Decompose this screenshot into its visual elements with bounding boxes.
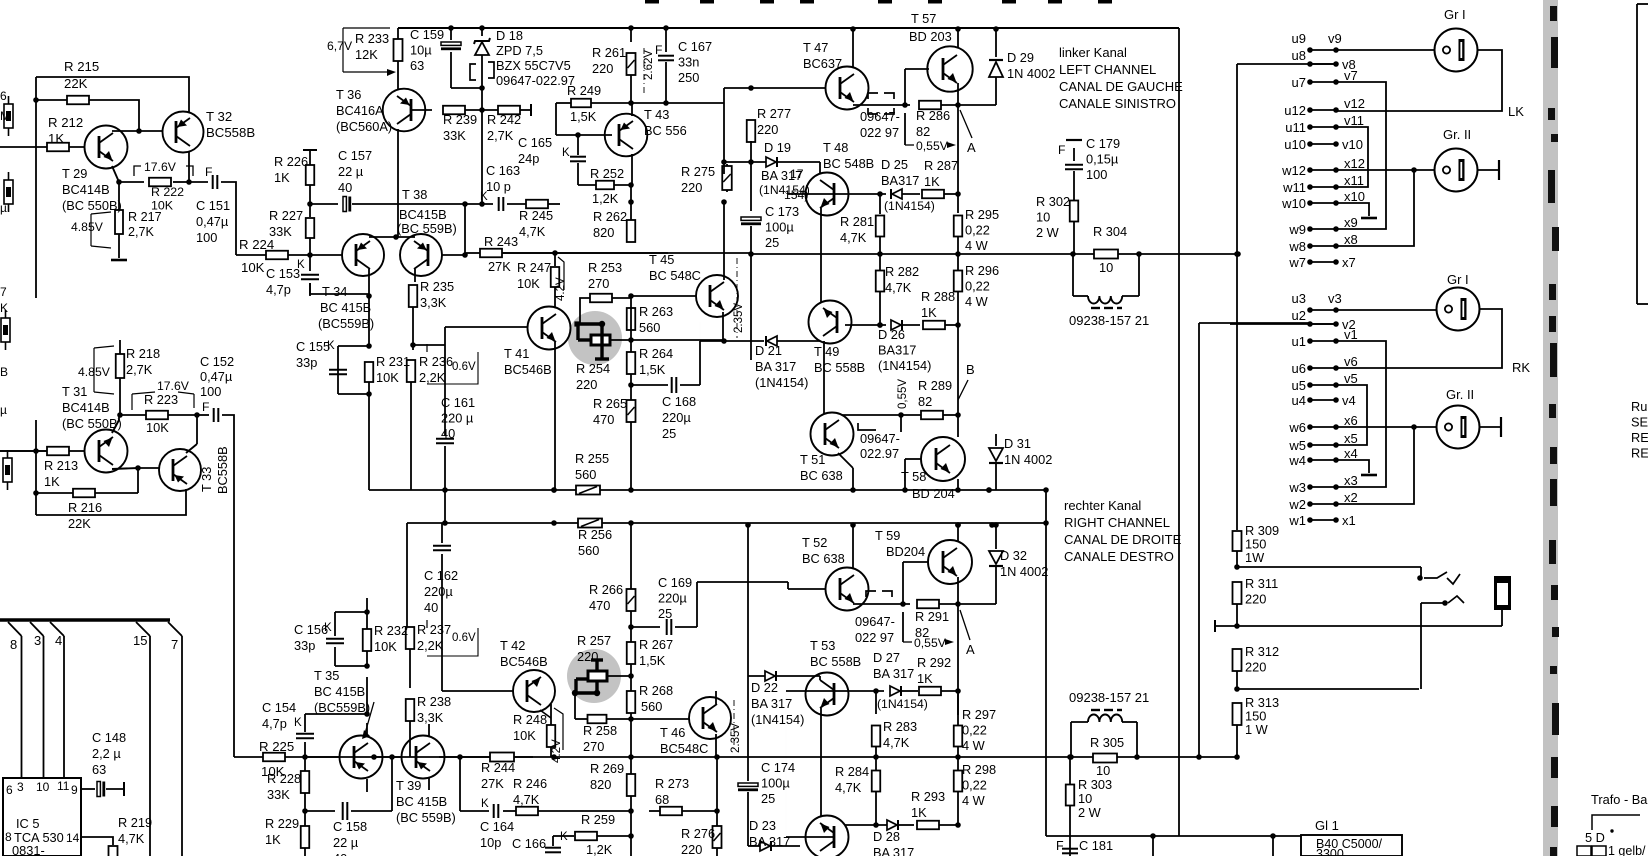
svg-text:R 282: R 282 — [885, 264, 919, 279]
svg-text:R 263: R 263 — [639, 304, 673, 319]
svg-text:Gr. II: Gr. II — [1443, 127, 1471, 142]
svg-text:D 19: D 19 — [764, 140, 791, 155]
svg-text:270: 270 — [583, 739, 604, 754]
svg-text:R 254: R 254 — [576, 361, 610, 376]
svg-text:220µ: 220µ — [662, 410, 691, 425]
svg-text:10K: 10K — [146, 420, 169, 435]
svg-text:R 238: R 238 — [417, 694, 451, 709]
svg-text:820: 820 — [593, 225, 614, 240]
svg-text:63: 63 — [92, 762, 106, 777]
svg-text:6,7V: 6,7V — [327, 39, 353, 53]
svg-text:R 293: R 293 — [911, 789, 945, 804]
svg-text:LEFT CHANNEL: LEFT CHANNEL — [1059, 62, 1156, 77]
svg-text:BA 317: BA 317 — [755, 359, 796, 374]
svg-text:R 265: R 265 — [593, 396, 627, 411]
svg-text:T 36: T 36 — [336, 87, 361, 102]
svg-text:33K: 33K — [267, 787, 290, 802]
svg-text:4,7K: 4,7K — [519, 224, 546, 239]
svg-text:0,47µ: 0,47µ — [196, 214, 229, 229]
svg-text:33p: 33p — [294, 638, 315, 653]
svg-text:100: 100 — [200, 384, 221, 399]
svg-text:022 97: 022 97 — [860, 125, 899, 140]
svg-text:4: 4 — [55, 633, 62, 648]
svg-text:Gr I: Gr I — [1444, 7, 1466, 22]
svg-text:R 245: R 245 — [519, 208, 553, 223]
svg-text:T 35: T 35 — [314, 668, 339, 683]
svg-text:2,2 µ: 2,2 µ — [92, 746, 121, 761]
svg-text:17.6V: 17.6V — [157, 379, 190, 393]
svg-text:8: 8 — [5, 830, 12, 844]
svg-text:x5: x5 — [1344, 431, 1358, 446]
svg-text:17.6V: 17.6V — [144, 160, 177, 174]
svg-text:R 296: R 296 — [965, 263, 999, 278]
svg-text:220 µ: 220 µ — [441, 411, 474, 426]
svg-text:C 181: C 181 — [1079, 838, 1113, 853]
svg-text:R 218: R 218 — [126, 346, 160, 361]
svg-text:9: 9 — [71, 783, 78, 797]
svg-text:3,3K: 3,3K — [417, 710, 444, 725]
svg-text:1K: 1K — [44, 474, 60, 489]
svg-text:40: 40 — [338, 180, 352, 195]
svg-text:R 295: R 295 — [965, 207, 999, 222]
svg-text:w3: w3 — [1288, 480, 1306, 495]
svg-text:27K: 27K — [488, 259, 511, 274]
svg-text:B: B — [0, 365, 8, 379]
svg-text:27K: 27K — [481, 776, 504, 791]
svg-text:10: 10 — [1099, 260, 1113, 275]
svg-text:4,7K: 4,7K — [840, 230, 867, 245]
svg-text:D 21: D 21 — [755, 343, 782, 358]
svg-text:1K: 1K — [911, 805, 927, 820]
svg-text:Gr I: Gr I — [1447, 272, 1469, 287]
svg-text:0.6V: 0.6V — [452, 361, 476, 373]
svg-text:09238-157 21: 09238-157 21 — [1069, 690, 1149, 705]
svg-text:33K: 33K — [443, 128, 466, 143]
svg-text:R 261: R 261 — [592, 45, 626, 60]
svg-text:C 151: C 151 — [196, 198, 230, 213]
svg-text:1K: 1K — [265, 832, 281, 847]
svg-text:4,7p: 4,7p — [266, 282, 291, 297]
svg-text:R 305: R 305 — [1090, 735, 1124, 750]
svg-text:R 268: R 268 — [639, 683, 673, 698]
svg-text:R 231: R 231 — [376, 354, 410, 369]
svg-text:1,5K: 1,5K — [639, 653, 666, 668]
svg-text:w10: w10 — [1281, 196, 1306, 211]
svg-text:C 154: C 154 — [262, 700, 296, 715]
svg-text:24p: 24p — [518, 151, 539, 166]
svg-text:10K: 10K — [374, 639, 397, 654]
svg-text:D 18: D 18 — [496, 28, 523, 43]
svg-text:09647-: 09647- — [855, 614, 895, 629]
svg-text:v1: v1 — [1344, 327, 1358, 342]
svg-text:1,2K: 1,2K — [592, 191, 619, 206]
svg-text:M: M — [0, 109, 10, 123]
svg-text:w11: w11 — [1282, 180, 1306, 195]
svg-text:T 43: T 43 — [644, 107, 669, 122]
svg-text:C 164: C 164 — [480, 819, 514, 834]
svg-text:2.62V: 2.62V — [643, 50, 655, 80]
svg-text:T 57: T 57 — [911, 11, 936, 26]
svg-text:R 228: R 228 — [267, 771, 301, 786]
svg-text:1,5K: 1,5K — [639, 362, 666, 377]
svg-text:x12: x12 — [1344, 156, 1365, 171]
svg-text:u3: u3 — [1292, 291, 1306, 306]
svg-text:D 23: D 23 — [749, 818, 776, 833]
svg-text:4,7K: 4,7K — [835, 780, 862, 795]
svg-text:10K: 10K — [513, 728, 536, 743]
svg-text:D 31: D 31 — [1004, 436, 1031, 451]
svg-text:BC546B: BC546B — [500, 654, 548, 669]
svg-text:BA 317: BA 317 — [873, 666, 914, 681]
svg-text:(1N4154): (1N4154) — [755, 375, 808, 390]
svg-text:D 32: D 32 — [1000, 548, 1027, 563]
svg-text:v5: v5 — [1344, 371, 1358, 386]
svg-text:R 248: R 248 — [513, 712, 547, 727]
svg-text:C 163: C 163 — [486, 163, 520, 178]
svg-text:rechter Kanal: rechter Kanal — [1064, 498, 1141, 513]
svg-text:R 286: R 286 — [916, 108, 950, 123]
svg-text:1K: 1K — [924, 174, 940, 189]
svg-text:R 216: R 216 — [68, 500, 102, 515]
svg-text:BD204: BD204 — [886, 544, 925, 559]
svg-text:BC 415B: BC 415B — [396, 794, 447, 809]
svg-text:x11: x11 — [1344, 173, 1364, 188]
svg-text:2,2K: 2,2K — [419, 370, 446, 385]
svg-text:BC 558B: BC 558B — [810, 654, 861, 669]
svg-text:w8: w8 — [1288, 239, 1306, 254]
svg-text:R 266: R 266 — [589, 582, 623, 597]
svg-text:11: 11 — [57, 779, 70, 793]
svg-text:0,55V: 0,55V — [914, 636, 947, 650]
svg-text:T 29: T 29 — [62, 166, 87, 181]
svg-text:v9: v9 — [1328, 31, 1342, 46]
svg-text:R 219: R 219 — [118, 815, 152, 830]
svg-text:220: 220 — [1245, 660, 1266, 675]
svg-text:RK: RK — [1512, 360, 1530, 375]
svg-text:x10: x10 — [1344, 189, 1365, 204]
svg-text:2,2K: 2,2K — [417, 638, 444, 653]
svg-text:4,7K: 4,7K — [118, 831, 145, 846]
svg-text:6: 6 — [6, 783, 13, 797]
svg-text:33n: 33n — [678, 55, 699, 70]
svg-text:2 W: 2 W — [1078, 805, 1102, 820]
svg-text:R 275: R 275 — [681, 164, 715, 179]
svg-text:w12: w12 — [1281, 163, 1306, 178]
svg-text:R 227: R 227 — [269, 208, 303, 223]
svg-text:220: 220 — [592, 61, 613, 76]
svg-text:10p: 10p — [480, 835, 501, 850]
svg-text:10K: 10K — [517, 276, 540, 291]
svg-text:25: 25 — [658, 606, 672, 621]
svg-text:RE: RE — [1631, 430, 1648, 445]
svg-text:w9: w9 — [1288, 222, 1306, 237]
svg-text:33p: 33p — [296, 355, 317, 370]
svg-text:LK: LK — [1508, 104, 1524, 119]
svg-text:09647-: 09647- — [860, 431, 900, 446]
svg-text:R 258: R 258 — [583, 723, 617, 738]
svg-text:F: F — [1056, 839, 1064, 853]
svg-text:D 28: D 28 — [873, 829, 900, 844]
svg-text:R 273: R 273 — [655, 776, 689, 791]
svg-text:C 162: C 162 — [424, 568, 458, 583]
svg-text:C 165: C 165 — [518, 135, 552, 150]
svg-text:022 97: 022 97 — [855, 630, 894, 645]
svg-text:4,7K: 4,7K — [883, 735, 910, 750]
svg-text:BC558B: BC558B — [215, 446, 230, 494]
svg-text:F: F — [202, 400, 209, 414]
svg-text:270: 270 — [588, 276, 609, 291]
svg-text:10 p: 10 p — [486, 179, 511, 194]
svg-text:6: 6 — [0, 89, 7, 103]
svg-text:R 255: R 255 — [575, 451, 609, 466]
svg-text:BC558B: BC558B — [206, 125, 255, 140]
svg-text:u8: u8 — [1292, 48, 1306, 63]
svg-text:x8: x8 — [1344, 232, 1358, 247]
svg-text:Gr. II: Gr. II — [1446, 387, 1474, 402]
svg-text:u7: u7 — [1292, 75, 1306, 90]
svg-text:Gl 1: Gl 1 — [1315, 818, 1339, 833]
svg-text:x9: x9 — [1344, 215, 1358, 230]
svg-text:R 283: R 283 — [883, 719, 917, 734]
svg-text:4 W: 4 W — [965, 238, 989, 253]
svg-text:x3: x3 — [1344, 473, 1358, 488]
svg-text:BA317: BA317 — [878, 343, 916, 358]
svg-text:1N 4002: 1N 4002 — [1000, 564, 1048, 579]
svg-text:T 47: T 47 — [803, 40, 828, 55]
svg-text:R 304: R 304 — [1093, 224, 1127, 239]
svg-text:RIGHT CHANNEL: RIGHT CHANNEL — [1064, 515, 1170, 530]
svg-text:1K: 1K — [917, 671, 933, 686]
svg-text:F: F — [205, 165, 212, 179]
svg-text:(BC559B): (BC559B) — [318, 316, 374, 331]
svg-text:R 287: R 287 — [924, 158, 958, 173]
svg-text:220µ: 220µ — [424, 584, 453, 599]
svg-text:4.85V: 4.85V — [71, 220, 104, 234]
svg-text:BD 203: BD 203 — [909, 29, 952, 44]
svg-text:1N 4002: 1N 4002 — [1007, 66, 1055, 81]
svg-text:C 148: C 148 — [92, 730, 126, 745]
svg-text:BC 415B: BC 415B — [320, 300, 371, 315]
svg-text:25: 25 — [765, 235, 779, 250]
svg-text:BC 548C: BC 548C — [649, 268, 701, 283]
svg-text:R 233: R 233 — [355, 31, 389, 46]
svg-text:22 µ: 22 µ — [333, 835, 359, 850]
svg-text:0,55V: 0,55V — [897, 379, 909, 409]
svg-text:R 223: R 223 — [144, 392, 178, 407]
svg-text:22K: 22K — [64, 76, 88, 91]
svg-text:R 253: R 253 — [588, 260, 622, 275]
svg-text:w2: w2 — [1288, 497, 1306, 512]
svg-text:R 292: R 292 — [917, 655, 951, 670]
svg-text:82: 82 — [916, 124, 930, 139]
svg-text:R 259: R 259 — [581, 812, 615, 827]
svg-text:3300: 3300 — [1316, 847, 1344, 856]
svg-text:BC 638: BC 638 — [800, 468, 843, 483]
svg-text:T 41: T 41 — [504, 346, 529, 361]
svg-text:R 237: R 237 — [417, 622, 451, 637]
svg-text:5 D: 5 D — [1585, 830, 1605, 845]
svg-text:40: 40 — [333, 851, 347, 856]
svg-text:R 217: R 217 — [128, 210, 162, 224]
svg-text:v3: v3 — [1328, 291, 1342, 306]
svg-text:(BC559B): (BC559B) — [314, 700, 370, 715]
svg-text:2 W: 2 W — [1036, 225, 1060, 240]
svg-text:T 33: T 33 — [199, 467, 214, 492]
svg-text:Trafo - Ba: Trafo - Ba — [1591, 792, 1648, 807]
svg-text:10: 10 — [1096, 763, 1110, 778]
svg-text:15: 15 — [133, 633, 147, 648]
svg-text:R 244: R 244 — [481, 760, 515, 775]
svg-text:R 284: R 284 — [835, 764, 869, 779]
svg-text:2,7K: 2,7K — [128, 225, 155, 239]
svg-text:R 288: R 288 — [921, 289, 955, 304]
svg-text:100: 100 — [196, 230, 217, 245]
svg-text:560: 560 — [639, 320, 660, 335]
svg-text:(BC 550B): (BC 550B) — [62, 416, 122, 431]
svg-text:220: 220 — [757, 122, 778, 137]
svg-text:K: K — [0, 301, 8, 315]
svg-text:BC414B: BC414B — [62, 400, 110, 415]
svg-text:0,22: 0,22 — [962, 723, 987, 738]
svg-text:R 242: R 242 — [487, 112, 521, 127]
svg-text:2.35V: 2.35V — [730, 723, 742, 753]
svg-text:R 264: R 264 — [639, 346, 673, 361]
svg-text:R 243: R 243 — [484, 234, 518, 249]
svg-text:BC637: BC637 — [803, 56, 842, 71]
svg-text:RE: RE — [1631, 446, 1648, 461]
svg-text:u12: u12 — [1284, 103, 1306, 118]
svg-text:x2: x2 — [1344, 490, 1358, 505]
svg-text:x4: x4 — [1344, 446, 1358, 461]
svg-text:CANAL DE DROITE: CANAL DE DROITE — [1064, 532, 1182, 547]
svg-text:(BC 559B): (BC 559B) — [397, 221, 457, 236]
svg-text:R 222: R 222 — [151, 185, 184, 199]
svg-text:IC 5: IC 5 — [16, 816, 39, 831]
svg-text:CANAL DE GAUCHE: CANAL DE GAUCHE — [1059, 79, 1183, 94]
svg-text:T 51: T 51 — [800, 452, 825, 467]
svg-text:T 46: T 46 — [660, 725, 685, 740]
svg-text:820: 820 — [590, 777, 611, 792]
svg-text:A: A — [967, 140, 976, 155]
svg-text:220: 220 — [681, 842, 702, 856]
svg-text:40: 40 — [441, 426, 455, 441]
svg-text:R 256: R 256 — [578, 527, 612, 542]
svg-text:R 257: R 257 — [577, 633, 611, 648]
svg-text:22 µ: 22 µ — [338, 164, 364, 179]
svg-text:560: 560 — [578, 543, 599, 558]
svg-text:BC416A: BC416A — [336, 103, 384, 118]
svg-text:470: 470 — [593, 412, 614, 427]
svg-text:R 235: R 235 — [420, 279, 454, 294]
svg-text:BA 317: BA 317 — [873, 845, 914, 856]
svg-text:14: 14 — [66, 831, 80, 845]
svg-text:C 169: C 169 — [658, 575, 692, 590]
svg-text:w5: w5 — [1288, 438, 1306, 453]
svg-text:F: F — [1058, 143, 1065, 157]
svg-text:D 25: D 25 — [881, 157, 908, 172]
svg-text:R 229: R 229 — [265, 816, 299, 831]
svg-text:7: 7 — [0, 285, 7, 299]
svg-text:R 267: R 267 — [639, 637, 673, 652]
svg-text:R 311: R 311 — [1245, 576, 1278, 591]
svg-text:R 303: R 303 — [1078, 777, 1112, 792]
svg-text:3: 3 — [17, 780, 24, 794]
svg-text:0,22: 0,22 — [962, 778, 987, 793]
svg-text:R 262: R 262 — [593, 209, 627, 224]
svg-text:1N 4002: 1N 4002 — [1004, 452, 1052, 467]
svg-text:R 291: R 291 — [915, 609, 949, 624]
svg-text:3,3K: 3,3K — [420, 295, 447, 310]
svg-text:C 168: C 168 — [662, 394, 696, 409]
svg-text:0,15µ: 0,15µ — [1086, 152, 1119, 167]
svg-text:22K: 22K — [68, 516, 91, 531]
svg-text:R 232: R 232 — [374, 623, 408, 638]
svg-text:D 29: D 29 — [1007, 50, 1034, 65]
svg-text:T 48: T 48 — [823, 140, 848, 155]
svg-text:0831-: 0831- — [12, 843, 45, 856]
svg-text:BC546B: BC546B — [504, 362, 552, 377]
svg-text:100: 100 — [1086, 167, 1107, 182]
svg-text:u6: u6 — [1292, 361, 1306, 376]
svg-text:CANALE SINISTRO: CANALE SINISTRO — [1059, 96, 1176, 111]
svg-text:C 159: C 159 — [410, 27, 444, 42]
svg-text:R 312: R 312 — [1245, 644, 1279, 659]
svg-text:C 155: C 155 — [296, 339, 330, 354]
svg-text:220µ: 220µ — [658, 591, 687, 606]
svg-text:u2: u2 — [1292, 308, 1306, 323]
svg-text:0,22: 0,22 — [965, 223, 990, 238]
svg-text:10µ: 10µ — [410, 43, 432, 58]
svg-text:220: 220 — [576, 377, 597, 392]
svg-text:µ: µ — [0, 403, 7, 417]
svg-text:R 298: R 298 — [962, 762, 996, 777]
svg-text:2,7K: 2,7K — [126, 362, 153, 377]
svg-text:T 42: T 42 — [500, 638, 525, 653]
svg-text:BC 558B: BC 558B — [814, 360, 865, 375]
svg-text:µ: µ — [0, 201, 7, 215]
svg-text:40: 40 — [424, 600, 438, 615]
svg-text:C 152: C 152 — [200, 354, 234, 369]
svg-text:R 225: R 225 — [259, 739, 294, 754]
svg-text:154): 154) — [784, 188, 808, 202]
svg-text:7: 7 — [171, 637, 178, 652]
svg-text:17: 17 — [790, 167, 804, 181]
svg-text:R 213: R 213 — [44, 458, 78, 473]
svg-text:T 34: T 34 — [322, 284, 347, 299]
svg-text:R 302: R 302 — [1036, 194, 1070, 209]
svg-text:R 246: R 246 — [513, 776, 547, 791]
svg-text:R 215: R 215 — [64, 59, 99, 74]
svg-text:K: K — [481, 798, 489, 810]
svg-text:v7: v7 — [1344, 68, 1358, 83]
svg-text:(1N4154): (1N4154) — [751, 712, 804, 727]
svg-text:R 269: R 269 — [590, 761, 624, 776]
svg-text:1K: 1K — [274, 170, 290, 185]
svg-text:u4: u4 — [1292, 393, 1306, 408]
svg-text:T 45: T 45 — [649, 252, 674, 267]
svg-text:v6: v6 — [1344, 354, 1358, 369]
svg-text:v12: v12 — [1344, 96, 1365, 111]
svg-text:R 239: R 239 — [443, 112, 477, 127]
svg-text:BC 548B: BC 548B — [823, 156, 874, 171]
svg-text:68: 68 — [655, 792, 669, 807]
svg-text:T 32: T 32 — [206, 109, 232, 124]
svg-text:10: 10 — [1036, 210, 1050, 225]
svg-text:T 53: T 53 — [810, 638, 835, 653]
svg-text:linker Kanal: linker Kanal — [1059, 45, 1127, 60]
svg-text:T 52: T 52 — [802, 535, 827, 550]
svg-text:B: B — [966, 362, 975, 377]
